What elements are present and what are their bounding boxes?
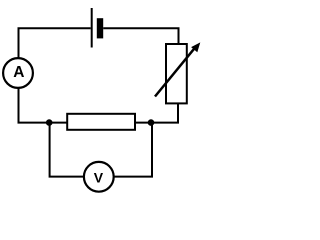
battery B1 (92, 8, 104, 48)
svg-text:V: V (94, 170, 104, 186)
variable resistor R2 (155, 42, 200, 103)
wire right: from variable resistor down and left to right junction (136, 103, 178, 122)
wire top-right: from battery across and down to variable resistor (103, 28, 178, 44)
node right junction (148, 119, 155, 126)
resistor R1 (67, 114, 135, 130)
node left junction (46, 119, 53, 126)
wire voltmeter-left: from left junction down and right to voltmeter (50, 123, 84, 177)
voltmeter V1 (84, 162, 114, 192)
wire middle-left: from ammeter down and right to resistor (19, 88, 68, 122)
ammeter A1 (3, 58, 33, 88)
wire voltmeter-right: from voltmeter right and up to right junction (114, 123, 152, 177)
svg-text:A: A (13, 64, 24, 81)
wire top-left: from ammeter up and across to battery (19, 28, 91, 58)
